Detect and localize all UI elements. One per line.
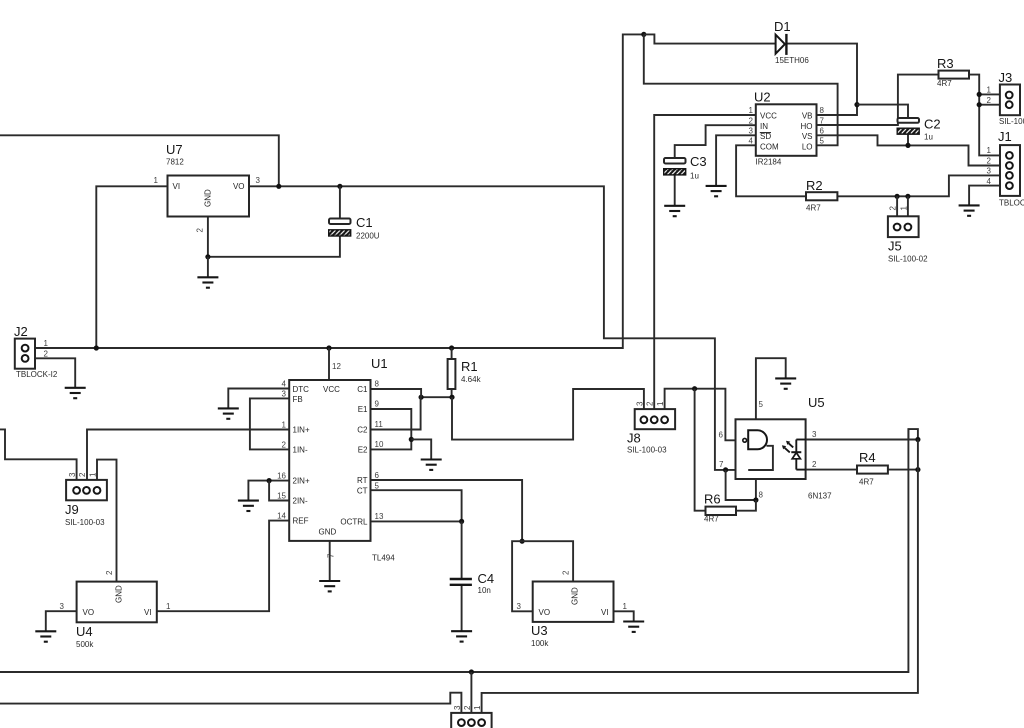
wire U5 pin7 tie to pin8 and R6 [726, 470, 756, 500]
svg-text:E1: E1 [358, 405, 368, 414]
node J3 pin1 junction [977, 92, 982, 97]
label C3 [690, 154, 707, 181]
svg-text:2: 2 [282, 441, 287, 450]
svg-text:J3: J3 [999, 70, 1013, 85]
op-amp U1 TL494 [289, 380, 370, 541]
svg-text:4R7: 4R7 [859, 478, 874, 487]
regulator U7 [168, 176, 250, 217]
wire U4 VO to ground [46, 611, 77, 631]
svg-text:2: 2 [463, 705, 472, 710]
label J10 pins [453, 705, 482, 710]
svg-text:1: 1 [987, 146, 992, 155]
capacitor C4 [450, 579, 472, 585]
svg-text:C1: C1 [356, 215, 373, 230]
wire R4 right to rail [888, 469, 918, 471]
resistor R2 [806, 192, 837, 200]
svg-text:2: 2 [987, 96, 992, 105]
svg-text:4: 4 [987, 177, 992, 186]
wire U2 SD to ground [716, 135, 756, 185]
wire U1 VCC pin12 stem [328, 348, 330, 380]
svg-text:2IN+: 2IN+ [293, 477, 310, 486]
wire U1 E2 pin10 [371, 439, 412, 449]
svg-text:3: 3 [812, 430, 817, 439]
svg-text:U7: U7 [166, 142, 183, 157]
svg-text:U4: U4 [76, 624, 93, 639]
wire RT node to U3 VO [512, 541, 533, 611]
wire R1 bottom jumper [421, 396, 452, 398]
diode D1 [776, 34, 787, 55]
svg-text:R2: R2 [806, 178, 823, 193]
resistor R3 [939, 71, 970, 79]
node R1 bottom right [449, 395, 454, 400]
svg-text:VCC: VCC [323, 385, 340, 394]
svg-text:4R7: 4R7 [704, 515, 719, 524]
svg-text:U5: U5 [808, 395, 825, 410]
svg-text:COM: COM [760, 142, 779, 151]
wire C3 bottom stem [674, 175, 676, 206]
svg-text:GND: GND [204, 189, 213, 207]
label J2 [14, 324, 58, 379]
svg-text:2: 2 [44, 350, 49, 359]
wire U2 VS to C2 bottom node and J1 pin2 [817, 135, 1001, 165]
resistor R6 [706, 507, 737, 515]
svg-text:6: 6 [719, 431, 724, 440]
svg-text:VCC: VCC [760, 112, 777, 121]
svg-text:8: 8 [375, 380, 380, 389]
svg-text:C4: C4 [478, 571, 495, 586]
label D1 [774, 19, 809, 65]
svg-text:1: 1 [623, 602, 628, 611]
wire top input rail to VO node [0, 135, 279, 186]
svg-text:2: 2 [562, 570, 571, 575]
wire C4 top stem [461, 521, 463, 578]
svg-text:IR2184: IR2184 [756, 158, 782, 167]
svg-text:2: 2 [889, 206, 898, 211]
svg-text:TBLOCK-M4: TBLOCK-M4 [999, 199, 1024, 208]
wire J5 pin1 stem [907, 196, 909, 216]
label J9 [65, 472, 105, 527]
label J8 [627, 401, 667, 455]
svg-text:IN: IN [760, 122, 768, 131]
svg-text:2: 2 [196, 228, 205, 233]
svg-text:VI: VI [601, 608, 609, 617]
svg-text:VB: VB [802, 112, 813, 121]
svg-text:1IN-: 1IN- [293, 446, 308, 455]
node D1 VB junction [854, 102, 859, 107]
connector J9 [66, 480, 107, 500]
connector J5 [888, 216, 919, 237]
svg-text:1u: 1u [690, 172, 699, 181]
wire D1 cathode to VB node [787, 44, 857, 115]
optocoupler U5 6N137 [736, 419, 806, 479]
svg-text:J1: J1 [998, 129, 1012, 144]
connector J10 bottom [451, 713, 491, 728]
svg-text:LO: LO [802, 142, 813, 151]
wire E junction to ground [411, 439, 431, 459]
wire U1 RT pin6 to U3 node [371, 480, 523, 541]
svg-text:4R7: 4R7 [937, 79, 952, 88]
label J5 [888, 206, 928, 264]
svg-text:GND: GND [115, 585, 124, 603]
node bottom bus A tap [469, 669, 474, 674]
svg-text:1: 1 [166, 602, 171, 611]
node J5 pin1 tap [905, 194, 910, 199]
node pin2 rail junction [915, 467, 920, 472]
wire ground stem U7 [207, 257, 209, 277]
wire U5 pin5 to ground [756, 358, 786, 419]
wire U1 DTC pin4 to ground [228, 389, 289, 409]
node C1 tap [337, 184, 342, 189]
svg-text:R4: R4 [859, 450, 876, 465]
svg-text:4: 4 [749, 137, 754, 146]
wire outer rail down to bottom bus B [482, 440, 918, 720]
svg-text:C2: C2 [357, 426, 368, 435]
node R1 bottom left [419, 395, 424, 400]
svg-text:4: 4 [282, 380, 287, 389]
ground 2IN [238, 501, 259, 511]
node C2 bottom junction [905, 143, 910, 148]
ground U1 pin7 [319, 581, 340, 591]
svg-text:VO: VO [83, 608, 95, 617]
ground J1 pin4 [959, 205, 980, 215]
ground DTC [218, 408, 239, 418]
node E1 E2 junction [409, 437, 414, 442]
svg-text:3: 3 [256, 176, 261, 185]
wire J2 pin2 to ground [35, 358, 75, 387]
svg-text:2: 2 [987, 157, 992, 166]
svg-text:3: 3 [282, 390, 287, 399]
node R1 top tap [449, 345, 454, 350]
ground U3 VI [623, 622, 644, 632]
label C2 [924, 117, 941, 142]
svg-text:10n: 10n [478, 586, 491, 595]
wire U7 GND pin stem [207, 217, 209, 257]
label C4 [478, 571, 495, 595]
svg-text:5: 5 [375, 482, 380, 491]
svg-text:13: 13 [375, 512, 384, 521]
svg-text:3: 3 [987, 167, 992, 176]
wire R1 node to J8 pin3 [452, 389, 644, 440]
resistor R1 [448, 359, 456, 389]
wire U1 E1 pin9 [371, 409, 412, 439]
svg-text:1: 1 [899, 206, 908, 211]
svg-text:VI: VI [144, 608, 152, 617]
node J3 pin2 junction [977, 102, 982, 107]
svg-text:R1: R1 [461, 359, 478, 374]
svg-text:6: 6 [375, 471, 380, 480]
wire R2 right to J5 taps and J1 pin3 [837, 175, 1000, 196]
svg-text:4.64k: 4.64k [461, 375, 482, 384]
svg-text:VS: VS [802, 132, 813, 141]
svg-text:3: 3 [749, 127, 754, 136]
svg-text:C2: C2 [924, 117, 941, 132]
wire U2 VCC to J8 pin2 riser [654, 115, 756, 417]
wire U1 GND pin7 stem [329, 541, 331, 581]
svg-text:2200U: 2200U [356, 232, 380, 241]
node pin3 rail junction [915, 437, 920, 442]
svg-text:E2: E2 [358, 446, 368, 455]
svg-text:D1: D1 [774, 19, 791, 34]
svg-text:14: 14 [277, 512, 286, 521]
svg-text:HO: HO [801, 122, 813, 131]
svg-text:1: 1 [987, 86, 992, 95]
wire R3 right to J3 and J1 pin1 [969, 75, 1000, 156]
svg-text:1: 1 [473, 705, 482, 710]
svg-text:J9: J9 [65, 502, 79, 517]
svg-text:R3: R3 [937, 56, 954, 71]
ground C3 [664, 206, 685, 216]
svg-text:RT: RT [357, 476, 368, 485]
label U1 [277, 356, 395, 563]
label U2 [749, 90, 825, 167]
ground E1 E2 [421, 460, 442, 470]
wire J3 pin2 stub [979, 104, 1000, 106]
svg-text:FB: FB [293, 395, 303, 404]
svg-text:U1: U1 [371, 356, 388, 371]
svg-text:15ETH06: 15ETH06 [775, 56, 809, 65]
wire J8 pin1 to U5 gate input [665, 389, 744, 441]
wire U2 COM to R2 [736, 145, 806, 196]
label J3 [987, 70, 1024, 126]
pot U3 [533, 582, 614, 622]
svg-text:2: 2 [646, 401, 655, 406]
svg-text:7: 7 [719, 460, 724, 469]
svg-text:8: 8 [759, 491, 764, 500]
label U7 [154, 142, 261, 233]
capacitor C3 [664, 158, 686, 175]
connector J2 [15, 339, 35, 369]
svg-text:J2: J2 [14, 324, 28, 339]
svg-text:6N137: 6N137 [808, 492, 832, 501]
wire supply to D1 anode [644, 34, 776, 43]
svg-text:REF: REF [293, 517, 309, 526]
wire U1 REF pin14 to U4 VI [157, 521, 289, 612]
svg-text:6: 6 [820, 127, 825, 136]
label R3 [937, 56, 954, 88]
ground J2 pin2 [65, 388, 86, 398]
label C1 [356, 215, 380, 241]
label R1 [461, 359, 482, 384]
wire J3 pin1 stub [979, 93, 1000, 95]
resistor R4 [857, 466, 888, 474]
wire U3 VI to ground [614, 611, 634, 621]
svg-text:4R7: 4R7 [806, 204, 821, 213]
wire U7 VO output to +12V rail [249, 186, 736, 470]
svg-text:2: 2 [812, 460, 817, 469]
node U7 ground junction [205, 254, 210, 259]
svg-text:500k: 500k [76, 640, 94, 649]
label R4 [859, 450, 876, 487]
svg-text:TBLOCK-I2: TBLOCK-I2 [16, 370, 58, 379]
wire U1 FB pin3 loop to 1IN- pin2 [250, 398, 289, 449]
wire U1 CT pin5 to OCTRL node [371, 490, 462, 521]
svg-text:2: 2 [78, 472, 87, 477]
svg-text:10: 10 [375, 440, 384, 449]
svg-text:3: 3 [60, 602, 65, 611]
label U3 [517, 570, 628, 648]
label R2 [806, 178, 823, 213]
wire J9 pin1 to U4 GND [97, 460, 117, 582]
svg-text:1: 1 [154, 176, 159, 185]
svg-text:7812: 7812 [166, 158, 184, 167]
svg-text:3: 3 [68, 472, 77, 477]
svg-text:VI: VI [173, 182, 181, 191]
svg-text:CT: CT [357, 487, 368, 496]
wire U5 pin2 to R4 [806, 469, 857, 471]
svg-text:C1: C1 [357, 385, 368, 394]
wire U1 C1 pin8 [371, 389, 422, 397]
svg-text:16: 16 [277, 472, 286, 481]
svg-text:R6: R6 [704, 492, 721, 507]
svg-text:SIL-100-02: SIL-100-02 [888, 255, 928, 264]
svg-text:GND: GND [319, 528, 337, 537]
svg-text:3: 3 [453, 705, 462, 710]
wire R3 left to U2 HO [817, 75, 939, 125]
wire U1 OCTRL pin13 [371, 520, 462, 522]
svg-text:VO: VO [233, 182, 245, 191]
svg-text:1: 1 [656, 401, 665, 406]
node VO junction [276, 184, 281, 189]
svg-text:100k: 100k [531, 639, 549, 648]
svg-text:SD: SD [760, 132, 771, 141]
wire supply branch to U2 LO [644, 34, 838, 145]
node U1 VCC tap [326, 345, 331, 350]
ground below U7 [197, 277, 218, 287]
svg-text:C3: C3 [690, 154, 707, 169]
node top supply corner [641, 32, 646, 37]
svg-text:DTC: DTC [293, 385, 310, 394]
wire U7 VI to main rail riser [96, 186, 167, 348]
svg-text:15: 15 [277, 492, 286, 501]
connector J8 [635, 409, 675, 429]
svg-text:U3: U3 [531, 623, 548, 638]
label J1 [987, 129, 1024, 208]
driver U2 IR2184 [756, 104, 817, 156]
svg-text:5: 5 [759, 400, 764, 409]
label U5 [719, 395, 833, 501]
wire 2IN- pin15 tie [269, 481, 289, 501]
label R6 [704, 492, 721, 524]
svg-text:OCTRL: OCTRL [340, 518, 368, 527]
svg-text:SIL-100-03: SIL-100-03 [627, 446, 667, 455]
wire U5 pin3 output [806, 439, 918, 441]
svg-text:3: 3 [517, 602, 522, 611]
svg-text:VO: VO [539, 608, 551, 617]
node 2IN tie [267, 478, 272, 483]
wire C1 bottom to ground node [208, 235, 340, 256]
svg-text:2: 2 [749, 116, 754, 125]
svg-text:1: 1 [282, 421, 287, 430]
node CT OCTRL junction [459, 519, 464, 524]
svg-text:5: 5 [820, 137, 825, 146]
wire RT node to U3 GND [522, 541, 573, 581]
svg-text:J8: J8 [627, 431, 641, 446]
svg-text:U2: U2 [754, 90, 771, 105]
svg-text:GND: GND [571, 587, 580, 605]
svg-text:2IN-: 2IN- [293, 497, 308, 506]
ground U5 pin5 [775, 378, 796, 388]
svg-text:1: 1 [749, 106, 754, 115]
wire U2 IN to C3 top [675, 125, 756, 158]
ground C4 [451, 631, 472, 641]
svg-text:1u: 1u [924, 133, 933, 142]
svg-text:2: 2 [105, 570, 114, 575]
node J2 rail junction [94, 345, 99, 350]
svg-text:3: 3 [635, 401, 644, 406]
node pin8 R6 junction [753, 497, 758, 502]
wire C1 top stem [339, 186, 341, 218]
label U4 [60, 570, 171, 649]
wire edge stub to J9 pin3 [0, 429, 77, 486]
ground U2 SD [706, 186, 727, 196]
capacitor C2 [897, 118, 919, 134]
wire C4 bottom stem [461, 586, 463, 631]
wire bottom left bus to connector pin3 [0, 693, 461, 720]
node J5 pin2 tap [895, 194, 900, 199]
svg-text:1: 1 [44, 339, 49, 348]
svg-text:7: 7 [327, 553, 336, 558]
wire U1 2IN+ pin16 to ground jog [248, 481, 289, 501]
svg-text:J5: J5 [888, 239, 902, 254]
wire U5 pin8 stem [755, 479, 757, 500]
node RT net [520, 539, 525, 544]
wire C2 bottom stem [907, 134, 909, 145]
wire J1 pin4 to ground [969, 186, 1000, 206]
svg-text:1: 1 [89, 472, 98, 477]
svg-text:12: 12 [332, 362, 341, 371]
pot U4 [77, 582, 157, 623]
wire J2 pin1 to main rail [35, 34, 644, 348]
wire J5 pin2 stem [896, 196, 898, 216]
svg-text:9: 9 [375, 400, 380, 409]
wire R1 stems [451, 348, 453, 397]
svg-text:8: 8 [820, 106, 825, 115]
svg-text:11: 11 [375, 420, 384, 429]
wire VB node to C2 top [857, 105, 908, 118]
wire U1 C2 pin11 [371, 397, 421, 429]
svg-text:SIL-100-03: SIL-100-03 [65, 518, 105, 527]
capacitor C1 [329, 219, 351, 237]
svg-text:SIL-100-02: SIL-100-02 [999, 117, 1024, 126]
wire R6 right to pin8 node [736, 500, 756, 511]
svg-text:TL494: TL494 [372, 554, 395, 563]
ground U4 VO [35, 631, 56, 641]
svg-text:7: 7 [820, 116, 825, 125]
node U5 pin7 junction [723, 467, 728, 472]
wire output hook [908, 429, 918, 439]
wire R6 left riser [695, 389, 706, 511]
wire bottom connector pin2 stem [470, 672, 472, 719]
svg-text:1IN+: 1IN+ [293, 426, 310, 435]
node J8 net to R6 [692, 386, 697, 391]
connector J3 [1000, 85, 1020, 116]
connector J1 [1000, 145, 1020, 196]
wire U1 1IN+ pin1 to J9 pin2 [87, 430, 289, 487]
wire inner rail down to bottom bus A [0, 429, 908, 672]
